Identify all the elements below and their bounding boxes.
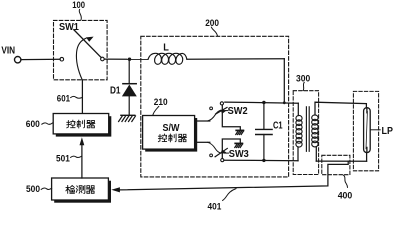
- label SW3: [224, 152, 229, 154]
- svg-text:L: L: [163, 43, 169, 54]
- arrow SW1 control tip: [86, 37, 94, 42]
- switch SW2 top contact: [220, 102, 223, 105]
- bottom rail left: [224, 159, 298, 162]
- leader 601: [71, 96, 82, 98]
- svg-text:200: 200: [205, 18, 219, 28]
- wire SW2 to ground: [222, 105, 240, 130]
- svg-text:210: 210: [154, 97, 168, 107]
- svg-text:LP: LP: [382, 126, 394, 137]
- wire SW1 control (601 up into box): [76, 38, 86, 80]
- leader 300: [303, 82, 304, 90]
- wire down from L: [283, 59, 285, 103]
- label 控制器 (S/W box): [158, 134, 186, 142]
- leader 600: [42, 123, 53, 125]
- 器: [86, 186, 94, 194]
- wire L to right: [187, 58, 284, 60]
- label 检测器 (500 box): [66, 186, 95, 194]
- box 100 (dashed): [54, 20, 108, 79]
- box 200 (dashed): [141, 36, 289, 177]
- leader 501: [71, 156, 82, 157]
- top rail: [225, 102, 298, 103]
- arrow SW3 control tip: [220, 150, 226, 154]
- leader 210: [153, 106, 159, 115]
- switch SW2 small contact: [210, 107, 213, 110]
- node C1 bottom: [262, 159, 265, 162]
- transformer T secondary winding: [312, 115, 318, 147]
- svg-text:401: 401: [208, 201, 222, 210]
- bottom wire secondary to lamp: [316, 160, 366, 162]
- stub S/W box to SW3: [197, 141, 210, 143]
- leader 100: [79, 10, 81, 21]
- arrow 501 tip: [80, 137, 85, 145]
- transformer T secondary bottom lead: [315, 147, 317, 161]
- wire 401 tap: [120, 161, 348, 190]
- wire lamp bottom: [366, 153, 368, 162]
- svg-text:VIN: VIN: [1, 46, 15, 57]
- label 控制器 (600 box): [67, 120, 95, 128]
- svg-text:SW2: SW2: [228, 106, 248, 117]
- 测: [76, 186, 85, 194]
- switch SW3 bottom contact: [221, 159, 224, 162]
- box LP (dashed): [353, 91, 378, 170]
- leader 400: [343, 175, 347, 187]
- box 400 (dashed): [322, 155, 350, 174]
- wire 501 detector to controller: [81, 144, 83, 178]
- wire SW3 to ground: [222, 139, 240, 159]
- wire 601 vertical: [81, 80, 83, 113]
- leader 500: [41, 188, 51, 189]
- arrow SW2 control tip: [220, 110, 226, 114]
- 控: [158, 135, 161, 142]
- switch SW1 blade: [74, 30, 101, 58]
- diode D1: [122, 59, 137, 115]
- transformer T primary lead: [297, 103, 299, 115]
- svg-text:SW3: SW3: [229, 149, 249, 160]
- 器: [178, 134, 186, 141]
- switch SW2 control curve: [208, 110, 221, 121]
- switch SW3 small contact: [210, 154, 213, 157]
- ground SW2: [236, 130, 244, 134]
- svg-text:500: 500: [26, 184, 40, 194]
- node C1 top: [262, 101, 265, 104]
- node junction D1: [128, 58, 131, 61]
- transformer T secondary top lead: [315, 102, 366, 115]
- label SW2: [225, 110, 228, 112]
- label LP: [371, 129, 380, 131]
- svg-text:600: 600: [26, 119, 40, 129]
- svg-text:S/W: S/W: [163, 123, 180, 134]
- svg-text:400: 400: [338, 190, 353, 200]
- svg-text:300: 300: [296, 73, 310, 83]
- svg-text:601: 601: [57, 94, 70, 104]
- leader 401: [223, 189, 236, 201]
- svg-text:C1: C1: [273, 121, 283, 132]
- box U210 S/W controller with shadow: [143, 116, 198, 152]
- transformer T core: [305, 107, 307, 152]
- switch SW2 blade: [216, 107, 227, 114]
- wire VIN to SW1: [21, 58, 60, 60]
- capacitor C1: [256, 103, 272, 161]
- stub S/W box to SW2: [197, 120, 210, 122]
- box 300 (dashed): [293, 91, 318, 175]
- switch SW3 control curve: [208, 142, 221, 153]
- inductor L: [148, 53, 187, 64]
- node rail/L junction: [283, 101, 286, 104]
- switch SW1 right contact: [101, 57, 105, 61]
- transformer T primary bottom lead: [297, 147, 299, 161]
- switch SW3 blade: [215, 148, 227, 156]
- lamp LP: [364, 108, 371, 153]
- svg-text:D1: D1: [110, 85, 121, 96]
- 检: [66, 186, 70, 194]
- arrow 401 into detector: [111, 187, 120, 192]
- 制: [168, 134, 176, 142]
- svg-text:100: 100: [72, 0, 85, 10]
- ground SW3: [235, 143, 243, 147]
- leader 200: [211, 27, 217, 35]
- box U600 controller with shadow: [53, 114, 111, 137]
- switch SW1 left contact: [60, 57, 64, 61]
- svg-text:501: 501: [56, 153, 70, 163]
- terminal VIN circle: [15, 57, 21, 63]
- box U500 detector with shadow: [52, 178, 111, 203]
- transformer T primary winding: [296, 115, 302, 147]
- ground under D1: [119, 115, 136, 121]
- wire SW1 to node D1: [104, 58, 148, 60]
